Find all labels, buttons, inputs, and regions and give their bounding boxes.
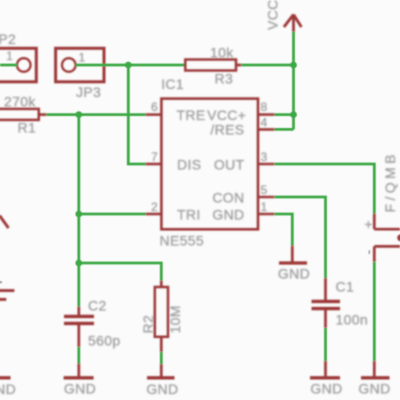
resistor R2 [155,287,168,337]
ground GND (pin 1) [279,246,307,263]
wire R3 to VCC rail [242,64,294,67]
svg-text:2: 2 [151,200,158,214]
wire junction down to pin 7 row [128,65,145,164]
svg-text:100n: 100n [336,312,369,328]
ground GND (buzzer) [361,361,390,378]
ground GND (R2) [147,364,175,378]
svg-text:F/QMB: F/QMB [382,151,398,212]
IC1 pin names [177,107,247,222]
junction node R2 branch [75,260,82,267]
ground GND (C2) [64,364,94,378]
svg-text:560p: 560p [88,333,121,349]
svg-text:R3: R3 [215,71,234,87]
IC1 pin stubs [146,115,275,214]
R2 top pin stub [160,281,163,288]
svg-text:JP2: JP2 [0,31,16,47]
svg-text:5: 5 [261,183,268,197]
op-amp/timer IC1 NE555 body [161,99,258,230]
IC1 pin numbers [151,100,268,214]
svg-text:GND: GND [212,206,244,222]
junction node JP3/DIS [125,62,132,69]
partial component diagonal stroke at left edge [0,216,9,229]
svg-text:R2: R2 [140,315,156,334]
svg-text:C2: C2 [88,298,107,314]
svg-text:OUT: OUT [214,156,245,172]
svg-text:10M: 10M [167,305,183,333]
wire JP3 to R3 left [76,64,186,67]
ground GND (C1) [310,361,340,378]
connector JP3 [56,48,104,82]
svg-text:+: + [364,216,373,232]
R3 right pin stub [236,64,242,67]
wire C1 to GND [324,328,327,361]
R2 bottom pin stub [160,337,163,352]
buzzer SG1 positive pin [374,214,400,230]
svg-text:7: 7 [151,150,158,164]
buzzer minus marking [368,250,370,254]
wire pin 4 to rail [275,128,294,131]
junction node R1/TRI branch [75,111,82,118]
capacitor C2 [64,307,94,348]
wire vertical trunk down to C2 [77,115,80,307]
svg-text:GND: GND [310,381,342,397]
svg-text:GND: GND [278,266,310,282]
svg-text:10k: 10k [210,45,234,61]
svg-text:/RES: /RES [210,122,244,138]
wire VCC rail [292,32,295,129]
svg-text:DIS: DIS [177,156,201,172]
wire R2 to GND [160,352,163,364]
svg-text:8: 8 [261,100,268,114]
svg-text:1: 1 [261,200,268,214]
svg-text:4: 4 [261,116,268,130]
wire to R2 top [79,263,162,281]
svg-text:1: 1 [79,51,86,65]
wire R1 to pin 6 [47,113,146,116]
svg-text:GND: GND [64,381,96,397]
resistor R3 [185,60,236,71]
svg-text:TRE: TRE [177,107,206,123]
junction node VCC/pin8 [290,111,297,118]
junction node VCC/R3 [290,62,297,69]
resistor R1 [0,109,39,120]
svg-text:270k: 270k [4,93,36,109]
capacitor C1 [312,278,341,328]
partial component bars at left edge [0,289,14,292]
svg-text:TRI: TRI [177,206,201,222]
svg-text:GND: GND [358,381,390,397]
wire pin 3 to buzzer [275,164,375,214]
svg-text:1: 1 [6,49,13,63]
svg-text:VCC+: VCC+ [207,107,246,123]
buzzer SG1 negative pin [374,246,400,262]
svg-text:NE555: NE555 [160,233,205,249]
svg-text:JP3: JP3 [76,84,101,100]
ground GND (left edge, partial) [0,376,11,379]
wire pin 1 to GND [275,214,293,246]
svg-text:R1: R1 [18,119,37,135]
connector JP2 [0,48,36,82]
wire pin 5 to C1 [275,197,326,278]
svg-text:GND: GND [146,381,178,397]
wire buzzer to GND [373,262,376,361]
partial gray tick at left edge [0,281,2,283]
svg-text:IC1: IC1 [161,76,184,92]
wire C2 to GND [77,347,80,364]
junction node pin2 branch [75,211,82,218]
svg-text:VCC: VCC [265,0,281,30]
wire to pin 2 [79,213,146,216]
wire JP2 pin1 to left edge [0,64,17,67]
wire pin 8 to rail [275,113,294,116]
svg-text:3: 3 [261,150,268,164]
buzzer body circle (partially visible) [397,234,400,241]
R1 right pin stub [39,113,47,116]
svg-text:CON: CON [212,189,244,205]
svg-text:6: 6 [151,100,158,114]
VCC supply symbol [284,15,302,32]
svg-text:GND: GND [0,381,16,397]
svg-text:C1: C1 [336,279,355,295]
